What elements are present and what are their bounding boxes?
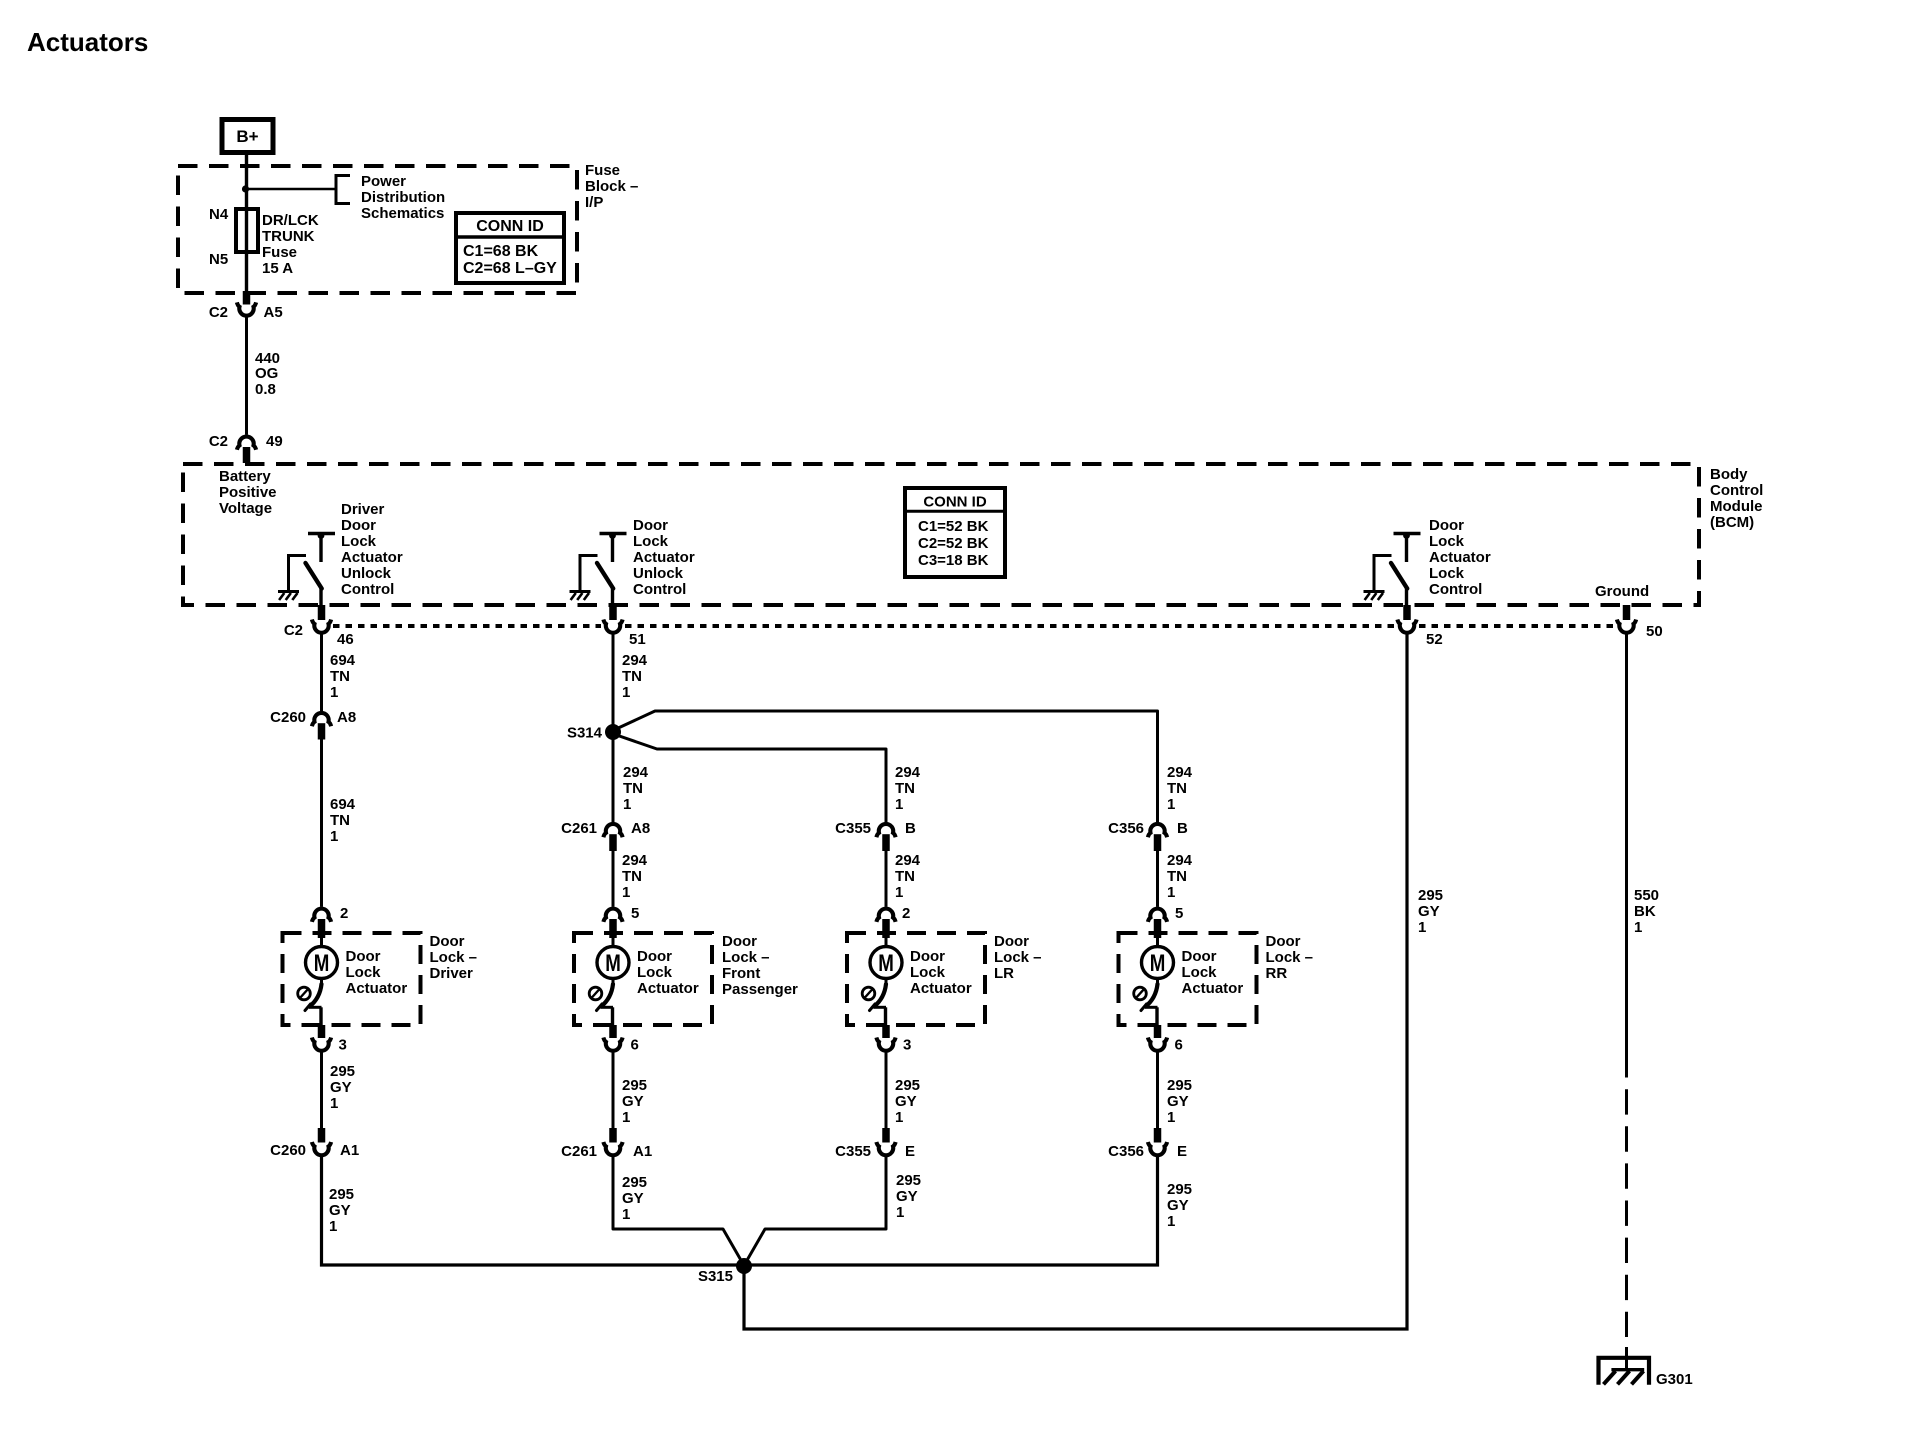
svg-text:3: 3 bbox=[339, 1037, 347, 1054]
svg-text:Battery: Battery bbox=[219, 468, 271, 485]
motor M door lock actuator RR bbox=[1134, 937, 1174, 1025]
svg-text:1: 1 bbox=[895, 1109, 903, 1126]
wire 694 TN (pin 46 to C260 A8) bbox=[320, 635, 323, 712]
svg-text:TN: TN bbox=[895, 868, 915, 885]
connector C356 pin B bbox=[1148, 824, 1167, 837]
svg-text:Door: Door bbox=[346, 948, 381, 965]
splice S314 bbox=[605, 724, 621, 740]
svg-text:B+: B+ bbox=[236, 127, 258, 146]
svg-text:E: E bbox=[905, 1143, 915, 1160]
wire through fuse bbox=[245, 209, 248, 252]
svg-text:GY: GY bbox=[1167, 1093, 1189, 1110]
svg-text:295: 295 bbox=[330, 1063, 355, 1080]
svg-text:Lock: Lock bbox=[1429, 565, 1465, 582]
svg-text:A8: A8 bbox=[631, 820, 650, 837]
svg-text:Lock: Lock bbox=[910, 964, 946, 981]
svg-text:I/P: I/P bbox=[585, 194, 603, 211]
svg-text:50: 50 bbox=[1646, 623, 1663, 640]
svg-text:C1=52 BK: C1=52 BK bbox=[918, 518, 989, 535]
svg-text:RR: RR bbox=[1266, 965, 1288, 982]
svg-text:1: 1 bbox=[1167, 884, 1175, 901]
door lock actuator lock control switch bbox=[1364, 532, 1421, 605]
svg-text:C355: C355 bbox=[835, 820, 871, 837]
svg-text:C355: C355 bbox=[835, 1143, 871, 1160]
svg-text:TN: TN bbox=[623, 780, 643, 797]
motor M door lock actuator driver bbox=[298, 937, 338, 1025]
svg-text:49: 49 bbox=[266, 433, 283, 450]
svg-text:DR/LCK: DR/LCK bbox=[262, 212, 319, 229]
connector C2 pin 51 bbox=[609, 605, 617, 620]
svg-text:Door: Door bbox=[633, 517, 668, 534]
connector C261 pin A8 bbox=[603, 824, 622, 837]
wire 550 BK dashed part bbox=[1625, 1089, 1628, 1337]
connector C260 pin A1 bbox=[318, 1128, 326, 1143]
svg-text:BK: BK bbox=[1634, 903, 1656, 920]
svg-text:Lock: Lock bbox=[1182, 964, 1218, 981]
connector pin 3 (LR actuator) bbox=[882, 1025, 890, 1038]
wire 294 TN (C355 B to actuator pin 2) bbox=[885, 851, 888, 907]
wire 295 GY C355 E to splice S315 bbox=[744, 1157, 886, 1266]
svg-text:C260: C260 bbox=[270, 1142, 306, 1159]
svg-text:CONN ID: CONN ID bbox=[923, 494, 987, 511]
svg-text:A8: A8 bbox=[337, 709, 356, 726]
connector C2 pin 46 bbox=[318, 605, 326, 620]
svg-text:Schematics: Schematics bbox=[361, 205, 444, 222]
svg-text:Passenger: Passenger bbox=[722, 981, 798, 998]
connector pin 5 (RR actuator) bbox=[1148, 909, 1167, 922]
svg-text:295: 295 bbox=[1418, 887, 1443, 904]
svg-text:Door: Door bbox=[430, 933, 465, 950]
wire to power distribution reference bbox=[246, 188, 337, 191]
svg-text:Lock –: Lock – bbox=[430, 949, 478, 966]
wire S315 to BCM pin 52 bbox=[744, 635, 1407, 1330]
svg-text:Actuator: Actuator bbox=[1182, 980, 1244, 997]
svg-text:2: 2 bbox=[340, 905, 348, 922]
connector C355 pin E bbox=[882, 1128, 890, 1143]
svg-text:51: 51 bbox=[629, 631, 646, 648]
connector C260 pin A8 bbox=[312, 713, 331, 726]
svg-text:5: 5 bbox=[1175, 905, 1183, 922]
door lock actuator LR box bbox=[847, 933, 985, 1025]
svg-text:1: 1 bbox=[622, 1109, 630, 1126]
svg-text:Front: Front bbox=[722, 965, 760, 982]
svg-text:Actuator: Actuator bbox=[910, 980, 972, 997]
CONN ID table (BCM) bbox=[905, 488, 1005, 577]
BCM connector C2 dotted line bbox=[333, 624, 601, 628]
svg-text:295: 295 bbox=[622, 1077, 647, 1094]
CONN ID table (fuse block) bbox=[456, 213, 564, 283]
svg-text:C2: C2 bbox=[209, 433, 228, 450]
svg-text:1: 1 bbox=[1167, 1213, 1175, 1230]
wire 295 GY to splice S315 (driver + RR bus) bbox=[322, 1157, 1158, 1265]
svg-text:46: 46 bbox=[337, 631, 354, 648]
svg-text:1: 1 bbox=[1167, 796, 1175, 813]
svg-text:Actuator: Actuator bbox=[346, 980, 408, 997]
connector pin 2 (driver actuator) bbox=[312, 909, 331, 922]
svg-text:Actuators: Actuators bbox=[27, 27, 148, 57]
svg-text:Fuse: Fuse bbox=[262, 244, 297, 261]
wire 294 TN (C261 A8 to actuator pin 5) bbox=[612, 851, 615, 907]
off-page reference bracket bbox=[336, 176, 350, 204]
wire S314 branch to C355 (LR) bbox=[615, 735, 886, 823]
connector C261 pin A1 bbox=[609, 1128, 617, 1143]
svg-text:Lock –: Lock – bbox=[722, 949, 770, 966]
svg-text:GY: GY bbox=[896, 1188, 918, 1205]
wire 294 TN (pin 51 to S314) bbox=[612, 635, 615, 823]
svg-text:1: 1 bbox=[1167, 1109, 1175, 1126]
wire S314 branch to C356 (RR) bbox=[615, 711, 1158, 822]
svg-text:E: E bbox=[1177, 1143, 1187, 1160]
svg-text:LR: LR bbox=[994, 965, 1014, 982]
svg-text:Driver: Driver bbox=[430, 965, 474, 982]
svg-text:C260: C260 bbox=[270, 709, 306, 726]
ground G301 bbox=[1599, 1358, 1650, 1385]
svg-text:M: M bbox=[1150, 950, 1166, 977]
svg-text:C261: C261 bbox=[561, 820, 597, 837]
svg-text:6: 6 bbox=[631, 1037, 639, 1054]
svg-text:Lock –: Lock – bbox=[1266, 949, 1314, 966]
svg-text:TN: TN bbox=[1167, 868, 1187, 885]
svg-text:Ground: Ground bbox=[1595, 583, 1649, 600]
svg-text:Control: Control bbox=[1429, 581, 1482, 598]
wire 550 BK (pin 50 to G301) solid part bbox=[1625, 635, 1628, 1078]
svg-text:GY: GY bbox=[895, 1093, 917, 1110]
connector pin 6 (RR actuator) bbox=[1154, 1025, 1162, 1038]
svg-text:294: 294 bbox=[622, 852, 648, 869]
svg-text:1: 1 bbox=[330, 684, 338, 701]
svg-text:Block –: Block – bbox=[585, 178, 638, 195]
svg-text:Driver: Driver bbox=[341, 501, 385, 518]
svg-text:C1=68 BK: C1=68 BK bbox=[463, 243, 539, 260]
svg-text:C261: C261 bbox=[561, 1143, 597, 1160]
svg-text:15 A: 15 A bbox=[262, 260, 293, 277]
svg-text:Door: Door bbox=[910, 948, 945, 965]
wire 295 GY (pin 6 to C356 E) bbox=[1156, 1053, 1159, 1129]
svg-text:Door: Door bbox=[1429, 517, 1464, 534]
connector C355 pin B bbox=[876, 824, 895, 837]
svg-text:1: 1 bbox=[622, 684, 630, 701]
svg-text:295: 295 bbox=[329, 1186, 354, 1203]
wire 295 GY C261 A1 to splice S315 bbox=[613, 1157, 744, 1266]
svg-text:C2: C2 bbox=[284, 622, 303, 639]
svg-text:CONN ID: CONN ID bbox=[476, 218, 544, 235]
svg-text:6: 6 bbox=[1175, 1037, 1183, 1054]
wire 295 GY (pin 3 to C260 A1) bbox=[320, 1053, 323, 1129]
connector C2 pin 49 bbox=[237, 437, 256, 450]
svg-text:3: 3 bbox=[903, 1037, 911, 1054]
svg-text:C2=52 BK: C2=52 BK bbox=[918, 535, 989, 552]
svg-text:B: B bbox=[1177, 820, 1188, 837]
svg-text:1: 1 bbox=[896, 1204, 904, 1221]
svg-text:1: 1 bbox=[329, 1218, 337, 1235]
svg-text:GY: GY bbox=[1418, 903, 1440, 920]
svg-text:Door: Door bbox=[1266, 933, 1301, 950]
wire 295 GY (pin 6 to C261 A1) bbox=[612, 1053, 615, 1129]
connector pin 3 (driver actuator) bbox=[318, 1025, 326, 1038]
svg-text:294: 294 bbox=[1167, 764, 1193, 781]
svg-text:1: 1 bbox=[895, 796, 903, 813]
svg-text:Lock: Lock bbox=[637, 964, 673, 981]
svg-text:C2: C2 bbox=[209, 304, 228, 321]
svg-text:TRUNK: TRUNK bbox=[262, 228, 315, 245]
svg-text:Door: Door bbox=[722, 933, 757, 950]
svg-text:M: M bbox=[314, 950, 330, 977]
battery feed B+ bbox=[222, 120, 273, 153]
svg-text:GY: GY bbox=[622, 1093, 644, 1110]
svg-text:C356: C356 bbox=[1108, 1143, 1144, 1160]
motor M door lock actuator front passenger bbox=[589, 937, 629, 1025]
svg-text:1: 1 bbox=[622, 1206, 630, 1223]
door lock actuator unlock control switch bbox=[570, 532, 627, 605]
wire 694 TN (C260 A8 to actuator pin 2) bbox=[320, 740, 323, 907]
svg-text:550: 550 bbox=[1634, 887, 1659, 904]
Body Control Module box bbox=[183, 464, 1699, 605]
svg-text:Actuator: Actuator bbox=[637, 980, 699, 997]
svg-text:Fuse: Fuse bbox=[585, 162, 620, 179]
svg-text:S314: S314 bbox=[567, 725, 603, 742]
svg-text:C356: C356 bbox=[1108, 820, 1144, 837]
svg-text:TN: TN bbox=[330, 668, 350, 685]
connector pin 5 (front passenger actuator) bbox=[603, 909, 622, 922]
connector C2 pin 50 (ground) bbox=[1623, 605, 1631, 620]
svg-text:Voltage: Voltage bbox=[219, 500, 272, 517]
svg-text:N5: N5 bbox=[209, 251, 228, 268]
connector C2 pin 52 bbox=[1403, 605, 1411, 620]
svg-text:295: 295 bbox=[896, 1172, 921, 1189]
svg-text:295: 295 bbox=[622, 1174, 647, 1191]
svg-text:294: 294 bbox=[895, 764, 921, 781]
svg-text:294: 294 bbox=[622, 652, 648, 669]
svg-text:Unlock: Unlock bbox=[633, 565, 684, 582]
door lock actuator driver box bbox=[283, 933, 421, 1025]
svg-text:Door: Door bbox=[637, 948, 672, 965]
svg-text:Actuator: Actuator bbox=[1429, 549, 1491, 566]
svg-text:GY: GY bbox=[330, 1079, 352, 1096]
svg-text:Lock: Lock bbox=[1429, 533, 1465, 550]
svg-text:694: 694 bbox=[330, 796, 356, 813]
svg-text:GY: GY bbox=[329, 1202, 351, 1219]
svg-text:A1: A1 bbox=[633, 1143, 652, 1160]
svg-text:294: 294 bbox=[895, 852, 921, 869]
fuse block I/P box bbox=[178, 166, 577, 293]
fuse DR/LCK TRUNK 15A bbox=[236, 209, 258, 252]
svg-text:Module: Module bbox=[1710, 498, 1763, 515]
svg-text:S315: S315 bbox=[698, 1268, 733, 1285]
svg-text:5: 5 bbox=[631, 905, 639, 922]
svg-text:M: M bbox=[878, 950, 894, 977]
svg-text:Control: Control bbox=[341, 581, 394, 598]
node junction at fuse top bbox=[242, 185, 249, 192]
svg-text:GY: GY bbox=[1167, 1197, 1189, 1214]
svg-text:TN: TN bbox=[622, 868, 642, 885]
svg-text:A1: A1 bbox=[340, 1142, 359, 1159]
svg-text:Control: Control bbox=[1710, 482, 1763, 499]
svg-text:1: 1 bbox=[622, 884, 630, 901]
svg-text:Body: Body bbox=[1710, 466, 1748, 483]
svg-text:1: 1 bbox=[895, 884, 903, 901]
svg-text:OG: OG bbox=[255, 365, 278, 382]
svg-text:Lock: Lock bbox=[341, 533, 377, 550]
door lock actuator RR box bbox=[1119, 933, 1257, 1025]
svg-text:295: 295 bbox=[895, 1077, 920, 1094]
wire B+ to fuse bbox=[245, 155, 248, 209]
svg-text:C2=68 L–GY: C2=68 L–GY bbox=[463, 260, 557, 277]
svg-text:Door: Door bbox=[1182, 948, 1217, 965]
svg-text:0.8: 0.8 bbox=[255, 381, 276, 398]
svg-text:Distribution: Distribution bbox=[361, 189, 445, 206]
svg-text:Control: Control bbox=[633, 581, 686, 598]
svg-text:N4: N4 bbox=[209, 206, 229, 223]
svg-text:Actuator: Actuator bbox=[633, 549, 695, 566]
wire 440 OG 0.8 bbox=[245, 317, 248, 434]
svg-text:Power: Power bbox=[361, 173, 406, 190]
connector pin 6 (front passenger actuator) bbox=[609, 1025, 617, 1038]
svg-text:1: 1 bbox=[623, 796, 631, 813]
svg-text:M: M bbox=[605, 950, 621, 977]
svg-text:Lock: Lock bbox=[346, 964, 382, 981]
connector C2 pin A5 bbox=[243, 291, 251, 305]
svg-text:Door: Door bbox=[994, 933, 1029, 950]
svg-text:TN: TN bbox=[895, 780, 915, 797]
svg-text:(BCM): (BCM) bbox=[1710, 514, 1754, 531]
svg-text:1: 1 bbox=[1634, 919, 1642, 936]
svg-text:Positive: Positive bbox=[219, 484, 277, 501]
svg-text:Lock –: Lock – bbox=[994, 949, 1042, 966]
splice S315 bbox=[736, 1258, 752, 1274]
driver door lock actuator unlock control switch bbox=[278, 532, 335, 605]
svg-text:Actuator: Actuator bbox=[341, 549, 403, 566]
connector C356 pin E bbox=[1154, 1128, 1162, 1143]
svg-text:1: 1 bbox=[330, 828, 338, 845]
svg-text:294: 294 bbox=[623, 764, 649, 781]
svg-text:295: 295 bbox=[1167, 1077, 1192, 1094]
connector pin 2 (LR actuator) bbox=[876, 909, 895, 922]
svg-text:Door: Door bbox=[341, 517, 376, 534]
svg-text:TN: TN bbox=[622, 668, 642, 685]
svg-text:G301: G301 bbox=[1656, 1371, 1693, 1388]
svg-text:C3=18 BK: C3=18 BK bbox=[918, 552, 989, 569]
svg-text:Lock: Lock bbox=[633, 533, 669, 550]
svg-text:TN: TN bbox=[1167, 780, 1187, 797]
svg-text:Unlock: Unlock bbox=[341, 565, 392, 582]
svg-text:TN: TN bbox=[330, 812, 350, 829]
svg-text:1: 1 bbox=[1418, 919, 1426, 936]
svg-text:295: 295 bbox=[1167, 1181, 1192, 1198]
svg-text:GY: GY bbox=[622, 1190, 644, 1207]
svg-text:294: 294 bbox=[1167, 852, 1193, 869]
svg-text:694: 694 bbox=[330, 652, 356, 669]
door lock actuator front passenger box bbox=[574, 933, 712, 1025]
svg-text:2: 2 bbox=[902, 905, 910, 922]
svg-text:52: 52 bbox=[1426, 631, 1443, 648]
wire 295 GY (pin 3 to C355 E) bbox=[885, 1053, 888, 1129]
svg-text:1: 1 bbox=[330, 1095, 338, 1112]
svg-text:B: B bbox=[905, 820, 916, 837]
wire 294 TN (C356 B to actuator pin 5) bbox=[1156, 851, 1159, 907]
motor M door lock actuator LR bbox=[862, 937, 902, 1025]
svg-text:A5: A5 bbox=[264, 304, 283, 321]
